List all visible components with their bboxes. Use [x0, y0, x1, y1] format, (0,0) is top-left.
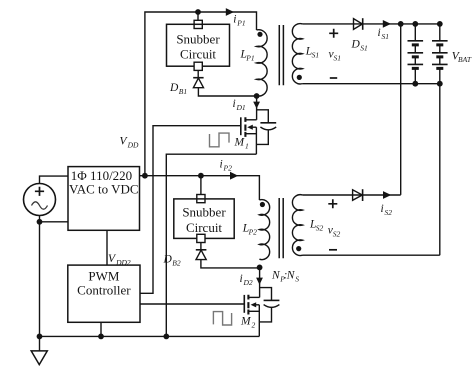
svg-text:D1: D1 — [236, 103, 246, 112]
snubber circuit 2 box — [174, 199, 234, 239]
junction battery2 bottom — [437, 81, 443, 87]
arrow iD2 — [256, 278, 263, 285]
wire drain M2 — [259, 267, 261, 297]
wire PWM to gate M1 — [140, 126, 241, 294]
svg-text:D: D — [169, 82, 179, 94]
wire snubber1 tap — [197, 12, 199, 20]
wire battery bottom rail — [302, 83, 439, 85]
wire M2 cap branch top — [260, 288, 272, 301]
svg-text:Circuit: Circuit — [186, 220, 222, 235]
wire VDC output stub — [140, 175, 145, 177]
ground symbol — [31, 336, 47, 364]
minus sign vS1 — [330, 77, 337, 79]
svg-text:M: M — [234, 136, 246, 148]
label M1 — [234, 136, 249, 150]
wire cap2 bottom to source — [259, 307, 271, 322]
label VDD2 — [108, 253, 131, 267]
label DS1 — [351, 39, 368, 53]
wire VDD bus riser to top rail and LP1 lead — [145, 12, 257, 176]
rectifier block U1: 1-phase 110/220 VAC to VDC — [68, 167, 140, 231]
label iS2 — [381, 203, 393, 217]
svg-text:S1: S1 — [312, 51, 320, 60]
svg-text:1: 1 — [245, 141, 249, 150]
arrow iS2 — [383, 191, 391, 199]
svg-text:P1: P1 — [236, 19, 245, 28]
terminal pin snubber2 bottom — [197, 234, 205, 242]
svg-text:Circuit: Circuit — [180, 46, 216, 61]
svg-text:DD: DD — [127, 141, 139, 150]
terminal pin snubber1 top — [194, 20, 202, 28]
svg-text:i: i — [233, 98, 236, 110]
svg-text:PWM: PWM — [88, 269, 120, 284]
label iD1 — [233, 98, 246, 112]
svg-text:Snubber: Snubber — [176, 31, 220, 46]
label iP1 — [233, 14, 245, 28]
inductor LS1 secondary winding — [292, 24, 302, 84]
label vS2 — [328, 224, 341, 238]
wire secondary2 top — [303, 194, 401, 196]
junction node A top rail — [398, 21, 404, 27]
junction node AC bottom — [37, 219, 43, 225]
label NP:NS turns ratio — [271, 270, 299, 284]
wire VDD2 rectifier to PWM — [106, 230, 108, 265]
diode DS1 — [354, 18, 363, 30]
ground rail — [40, 335, 260, 337]
polarity dot LS1 — [297, 75, 302, 80]
arrow iD1 — [253, 102, 260, 109]
junction battery2 top — [437, 21, 443, 27]
wire M1 cap branch top — [257, 110, 269, 123]
junction node snubber2 tap — [198, 173, 204, 179]
label iS1 — [378, 27, 390, 41]
junction ground at AC — [37, 334, 43, 340]
label DB1 — [169, 82, 187, 96]
label LP2 — [242, 223, 257, 237]
inductor LS2 secondary winding — [292, 195, 302, 256]
wire snubber2 tap — [200, 176, 202, 195]
label M2 — [240, 315, 256, 329]
svg-text:S1: S1 — [334, 54, 342, 63]
svg-text:P2: P2 — [248, 228, 258, 237]
wire M1 source to ground rail — [166, 154, 256, 336]
wire AC bottom down to ground rail — [39, 216, 41, 337]
svg-text:Controller: Controller — [77, 283, 131, 298]
wire cap1 bottom to source — [256, 130, 268, 145]
battery BT1 — [408, 24, 424, 84]
wire secondary1 top rail — [302, 23, 439, 25]
PWM controller U2 — [68, 265, 140, 322]
wire snubber1 to DB1 — [197, 70, 199, 77]
svg-text:i: i — [381, 203, 384, 215]
plus sign vS1 — [329, 29, 338, 38]
wire battery minus to secondary2 return — [439, 84, 441, 256]
wire DB1 to drain node 1 — [198, 88, 256, 96]
arrow iS1 — [383, 20, 391, 28]
svg-text:i: i — [240, 273, 243, 285]
wire iP2 feed and LP2 lead — [145, 176, 260, 200]
inductor LP1 primary winding — [257, 30, 268, 96]
label vS1 — [329, 49, 342, 63]
svg-text:M: M — [240, 315, 252, 327]
junction drain node 2 — [257, 265, 263, 271]
diode DB1 — [193, 78, 203, 88]
label LS2 — [309, 218, 324, 232]
svg-text:i: i — [233, 14, 236, 26]
label VDD — [120, 136, 140, 150]
svg-text:D2: D2 — [243, 278, 253, 287]
pulse symbol gate1 — [210, 133, 230, 147]
wire battery plus to output2 diode — [400, 24, 402, 195]
svg-text:i: i — [378, 27, 381, 39]
svg-text:S2: S2 — [316, 223, 324, 232]
wire AC bottom to rectifier input — [40, 221, 69, 223]
terminal pin snubber2 top — [197, 195, 205, 203]
junction battery1 top — [412, 21, 418, 27]
minus sign vS2 — [329, 249, 337, 251]
wire PWM to gate M2 — [140, 303, 244, 305]
pulse symbol gate2 — [213, 312, 231, 325]
transformer core T1 — [279, 25, 283, 85]
wire secondary2 bottom — [303, 254, 440, 256]
label DB2 — [163, 254, 181, 268]
mosfet M2 — [244, 295, 259, 337]
diode DS2 — [353, 189, 363, 201]
svg-text:i: i — [220, 159, 223, 171]
arrow iP2 — [230, 172, 238, 180]
battery BT2 — [432, 24, 448, 84]
svg-text:P2: P2 — [223, 164, 233, 173]
junction drain node 1 — [254, 93, 260, 99]
polarity dot LP1 — [257, 32, 262, 37]
terminal pin snubber1 bottom — [194, 62, 202, 70]
svg-text:S1: S1 — [360, 44, 368, 53]
svg-text:2: 2 — [252, 320, 256, 329]
svg-text:B2: B2 — [172, 259, 181, 268]
polarity dot LP2 — [260, 202, 265, 207]
svg-text:D: D — [163, 254, 173, 266]
junction battery1 bottom — [412, 81, 418, 87]
capacitor C1 across M1 — [260, 123, 276, 130]
svg-text:S: S — [295, 275, 299, 284]
svg-text:Snubber: Snubber — [182, 205, 226, 220]
label iP2 — [220, 159, 233, 173]
svg-text:S2: S2 — [385, 208, 393, 217]
arrow iP1 — [226, 8, 234, 16]
svg-text:BAT: BAT — [458, 55, 472, 64]
label LS1 — [305, 46, 319, 60]
plus sign vS2 — [328, 199, 337, 208]
svg-text:S2: S2 — [333, 229, 341, 238]
wire DB2 to drain node 2 — [201, 260, 260, 268]
junction ground at M1 source — [163, 334, 169, 340]
svg-text:P1: P1 — [245, 54, 254, 63]
wire PWM ground — [100, 322, 102, 336]
polarity dot LS2 — [296, 246, 301, 251]
junction ground at PWM — [98, 334, 104, 340]
inductor LP2 primary winding — [259, 200, 269, 260]
wire snubber2 to DB2 — [200, 243, 202, 250]
label VBAT — [452, 50, 472, 64]
diode DB2 — [196, 250, 207, 260]
capacitor C2 across M2 — [264, 300, 280, 307]
mosfet M1 — [241, 117, 257, 154]
snubber circuit 1 box — [167, 24, 230, 66]
svg-text:D: D — [351, 39, 361, 51]
wire AC top to rectifier input — [40, 176, 69, 183]
wire drain M1 — [256, 96, 258, 120]
svg-text:S1: S1 — [382, 32, 390, 41]
transformer core T2 — [279, 198, 283, 258]
label iD2 — [240, 273, 253, 287]
junction node VDD — [142, 173, 148, 179]
svg-text:B1: B1 — [179, 87, 187, 96]
AC source VAC — [24, 184, 56, 216]
label LP1 — [240, 49, 255, 63]
junction node snubber1 tap — [195, 9, 201, 15]
svg-text:VAC to VDC: VAC to VDC — [69, 182, 139, 197]
